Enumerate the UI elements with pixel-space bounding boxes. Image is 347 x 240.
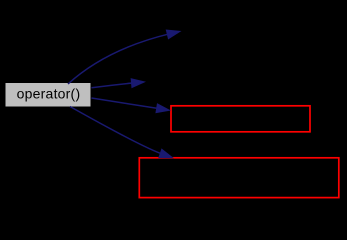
svg-text:operator(): operator() [17, 86, 81, 102]
